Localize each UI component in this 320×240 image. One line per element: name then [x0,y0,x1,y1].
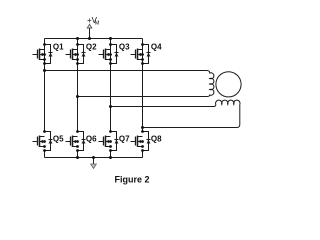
svg-text:Q3: Q3 [119,43,130,52]
svg-text:Q1: Q1 [53,43,64,52]
svg-text:Q6: Q6 [86,135,97,144]
svg-text:Q4: Q4 [151,43,162,52]
svg-text:Q7: Q7 [119,135,130,144]
svg-text:Figure 2: Figure 2 [115,174,150,184]
svg-text:Q5: Q5 [53,135,64,144]
svg-text:Q2: Q2 [86,43,97,52]
svg-text:M: M [95,21,100,27]
svg-text:Q8: Q8 [151,135,162,144]
